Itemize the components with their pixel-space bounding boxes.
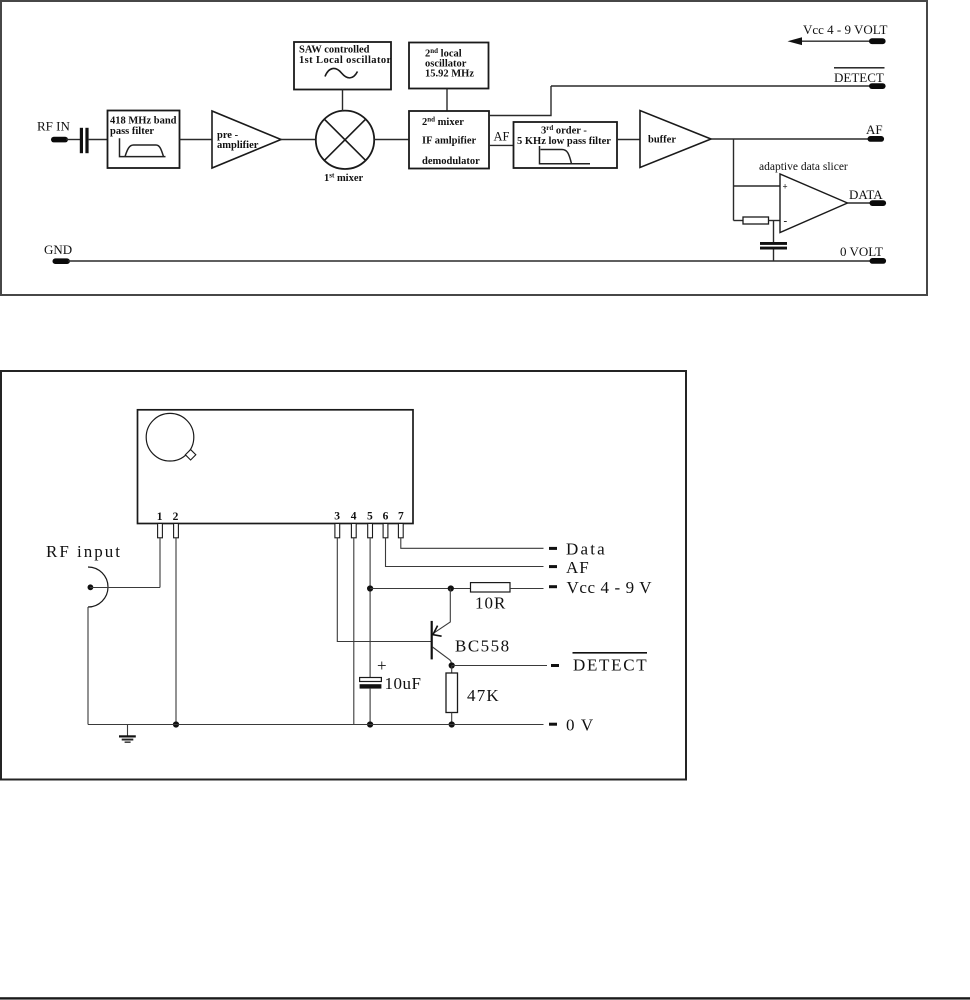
transistor BC558 bbox=[432, 589, 511, 666]
RF input connector arc bbox=[88, 567, 109, 607]
ground symbol bbox=[119, 725, 136, 744]
svg-text:10uF: 10uF bbox=[385, 674, 422, 693]
pin 3 wire to base bbox=[337, 538, 431, 642]
0 VOLT rail bbox=[68, 244, 886, 264]
cap bottom wire bbox=[367, 689, 373, 728]
wire RFIN to C bbox=[66, 139, 80, 141]
pin 4 wire bbox=[353, 538, 355, 725]
pin number labels bbox=[157, 511, 404, 524]
Data label bbox=[549, 540, 607, 559]
svg-text:47K: 47K bbox=[467, 686, 500, 705]
slicer cap to ground bbox=[760, 221, 787, 262]
mixer M1 circle with X bbox=[316, 111, 374, 169]
capacitor C input bbox=[80, 128, 89, 153]
receiver module outline bbox=[138, 410, 414, 524]
DETECT rail bbox=[551, 68, 886, 89]
svg-text:418 MHz band: 418 MHz band bbox=[110, 116, 177, 127]
svg-text:amplifier: amplifier bbox=[217, 140, 259, 151]
svg-text:5: 5 bbox=[367, 511, 373, 523]
svg-text:+: + bbox=[377, 656, 387, 675]
page bottom rule bbox=[0, 997, 970, 999]
wire osc2 to IF block bbox=[446, 89, 448, 112]
sine symbol bbox=[325, 68, 358, 77]
coil circle bbox=[146, 413, 194, 461]
wire IF block to DETECT rail bbox=[489, 86, 551, 116]
svg-text:buffer: buffer bbox=[648, 135, 676, 146]
pin 5 bbox=[368, 524, 373, 538]
pin 6 wire to AF bbox=[386, 538, 544, 567]
frame bottom diagram bbox=[1, 371, 686, 780]
wire C to BPF bbox=[89, 139, 108, 141]
trimmer diamond bbox=[185, 450, 195, 460]
svg-text:GND: GND bbox=[44, 242, 72, 257]
svg-text:DETECT: DETECT bbox=[834, 70, 884, 85]
svg-text:DETECT: DETECT bbox=[573, 656, 648, 675]
slicer resistor bbox=[734, 217, 781, 224]
RF input label bbox=[46, 542, 122, 561]
GND label and pad bbox=[44, 242, 72, 264]
op-amp comparator bbox=[780, 174, 848, 233]
wire connector to pin1 bbox=[90, 587, 160, 589]
svg-text:-: - bbox=[784, 215, 788, 227]
wire mixer1 to IF block bbox=[374, 139, 409, 141]
svg-text:RF input: RF input bbox=[46, 542, 122, 561]
pin 7 bbox=[398, 524, 403, 538]
svg-text:AF: AF bbox=[866, 122, 883, 137]
svg-text:Data: Data bbox=[566, 540, 607, 559]
svg-text:6: 6 bbox=[383, 511, 389, 523]
svg-text:RF IN: RF IN bbox=[37, 119, 70, 134]
svg-text:DATA: DATA bbox=[849, 187, 883, 202]
capacitor 10uF bbox=[360, 656, 422, 693]
frame top diagram bbox=[1, 1, 927, 295]
wire IF block to LPF bbox=[489, 144, 514, 146]
wire preamp to mixer1 bbox=[281, 139, 316, 141]
pin 3 bbox=[335, 524, 340, 538]
svg-text:IF amlpifier: IF amlpifier bbox=[422, 136, 476, 147]
pin 7 wire to Data bbox=[401, 538, 544, 549]
wire LPF to buffer bbox=[617, 139, 640, 141]
DETECT wire bbox=[449, 653, 649, 675]
IF amplifier / 2nd mixer block bbox=[409, 111, 489, 169]
Vcc wire with junctions bbox=[370, 585, 470, 591]
svg-text:1st mixer: 1st mixer bbox=[324, 172, 364, 185]
2nd local oscillator block bbox=[409, 43, 489, 89]
adaptive data slicer label bbox=[759, 161, 848, 173]
AF node label bbox=[494, 130, 510, 144]
pin 1 bbox=[158, 524, 163, 538]
wire AF junction down to slicer bbox=[733, 139, 735, 221]
svg-text:+: + bbox=[783, 182, 788, 192]
svg-text:AF: AF bbox=[566, 558, 590, 577]
svg-text:1: 1 bbox=[157, 511, 163, 523]
buffer triangle bbox=[640, 111, 711, 168]
resistor 10R bbox=[471, 583, 544, 613]
svg-text:Vcc 4 - 9 VOLT: Vcc 4 - 9 VOLT bbox=[803, 22, 888, 37]
AF label bbox=[549, 558, 590, 577]
svg-text:BC558: BC558 bbox=[455, 637, 511, 656]
SAW controlled oscillator block bbox=[294, 42, 392, 90]
svg-text:10R: 10R bbox=[475, 594, 506, 613]
low pass filter block bbox=[514, 122, 618, 168]
wire BPF to preamp bbox=[180, 139, 213, 141]
band pass filter block bbox=[108, 111, 180, 169]
label 1st mixer bbox=[324, 172, 364, 185]
pin 4 bbox=[351, 524, 356, 538]
svg-text:7: 7 bbox=[398, 511, 404, 523]
svg-text:SAW controlled: SAW controlled bbox=[299, 45, 370, 56]
Vcc label bbox=[549, 578, 652, 597]
pin 2 bbox=[174, 524, 179, 538]
wire connector down to 0V bbox=[87, 607, 89, 725]
svg-text:0 V: 0 V bbox=[566, 716, 594, 735]
svg-text:adaptive data slicer: adaptive data slicer bbox=[759, 161, 848, 173]
pin 2 wire bbox=[173, 538, 179, 728]
pin 5 wire to cap top bbox=[367, 538, 373, 678]
DATA rail bbox=[848, 187, 887, 206]
resistor 47K bbox=[446, 666, 500, 728]
Vcc arrow rail bbox=[788, 22, 888, 45]
AF rail bbox=[711, 122, 884, 142]
svg-text:Vcc 4 - 9 V: Vcc 4 - 9 V bbox=[567, 578, 653, 597]
wire SAW to mixer1 bbox=[342, 90, 344, 112]
RF IN terminal pad bbox=[51, 137, 68, 143]
svg-text:AF: AF bbox=[494, 130, 510, 144]
svg-text:0 VOLT: 0 VOLT bbox=[840, 244, 883, 259]
RF IN label bbox=[37, 119, 70, 134]
svg-text:3: 3 bbox=[334, 511, 340, 523]
svg-text:demodulator: demodulator bbox=[422, 156, 480, 167]
svg-text:2: 2 bbox=[173, 511, 179, 523]
pin 1 wire bbox=[159, 538, 161, 588]
svg-text:pass filter: pass filter bbox=[110, 126, 154, 137]
pre-amplifier triangle bbox=[212, 111, 281, 168]
0V rail bbox=[88, 716, 594, 735]
wire to plus input bbox=[734, 185, 781, 187]
svg-text:4: 4 bbox=[351, 511, 357, 523]
pin 6 bbox=[383, 524, 388, 538]
svg-text:15.92 MHz: 15.92 MHz bbox=[425, 69, 474, 80]
svg-text:1st Local oscillator: 1st Local oscillator bbox=[299, 55, 392, 66]
svg-text:5 KHz low pass filter: 5 KHz low pass filter bbox=[517, 136, 611, 147]
